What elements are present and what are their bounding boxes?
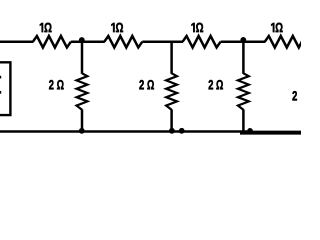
label 2 (for off-screen fourth shunt, cut at right edge) (292, 91, 297, 100)
source box (cut off at left edge) (0, 62, 10, 115)
label 1 ohm for R3 (191, 23, 203, 32)
wire shunt 1 top lead (81, 42, 84, 74)
node junction dot at bottom of shunt 1 (79, 128, 85, 134)
resistor 2ohm shunt 2 (vertical) (166, 73, 177, 110)
label 1 ohm for R1 (40, 23, 52, 32)
node junction dot on thick bottom wire (247, 128, 253, 134)
resistor R4 1ohm (series, cut off at right edge) (265, 36, 305, 48)
node junction dot at top of shunt 1 (79, 37, 85, 43)
wire top rail segment between R3 and R4 (221, 40, 266, 43)
wire top rail segment between R2 and R3 (142, 40, 183, 43)
resistor 2ohm shunt 3 (vertical) (238, 73, 249, 110)
wire top rail segment left (0, 40, 33, 43)
resistor R3 1ohm (series) (183, 36, 221, 48)
label 2 ohm for shunt 1 (49, 80, 64, 89)
node junction dot at top of shunt 3 (240, 37, 246, 43)
wire shunt 2 top lead (170, 42, 173, 74)
resistor 2ohm shunt 1 (vertical) (77, 73, 88, 110)
resistor R2 1ohm (series) (104, 36, 142, 48)
label 1 ohm for R2 (111, 23, 123, 32)
node terminal dot right of shunt 2 bottom (179, 128, 185, 134)
minus mark (cut) inside source box (0, 91, 1, 94)
label 1 ohm for R4 (271, 23, 283, 32)
wire top rail segment between R1 and R2 (71, 40, 105, 43)
wire shunt 2 bottom lead (170, 109, 173, 131)
wire shunt 3 bottom lead (242, 109, 245, 131)
node junction dot at bottom of shunt 2 (169, 128, 175, 134)
label 2 ohm for shunt 2 (139, 80, 154, 89)
wire shunt 1 bottom lead (81, 109, 84, 131)
label 2 ohm for shunt 3 (209, 80, 223, 89)
wire bottom rail (thick, right portion) (240, 131, 301, 135)
resistor R1 1ohm (series) (33, 36, 71, 48)
wire shunt 3 top lead (242, 42, 245, 74)
wire bottom rail (thin, left portion) (0, 130, 247, 133)
plus mark (cut) inside source box (0, 76, 1, 79)
